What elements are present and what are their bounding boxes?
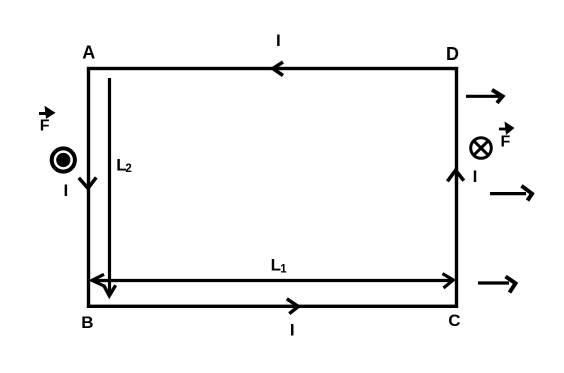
svg-text:D: D (446, 44, 459, 64)
current into page symbol (circle with cross) (471, 138, 492, 159)
arrowhead: down arrow at bottom of L2 (104, 285, 116, 296)
svg-text:C: C (448, 311, 460, 330)
field arrow right (middle) (490, 192, 526, 195)
force vector F arrow on left side (39, 112, 49, 115)
current arrow on top side (pointing left) (273, 62, 283, 76)
current arrow on left side (pointing down) (79, 177, 96, 188)
svg-text:F: F (40, 118, 50, 135)
svg-text:I: I (64, 181, 69, 200)
force vector F arrow on right side (499, 128, 508, 131)
svg-text:A: A (82, 43, 95, 63)
field arrow right (bottom) (478, 281, 509, 284)
wire: inner vertical measure line L2 (108, 78, 111, 293)
arrowhead: right arrow at right end of L1 (443, 274, 454, 288)
current arrow on right side (pointing up) (447, 170, 463, 181)
svg-text:I: I (276, 31, 281, 50)
svg-text:B: B (81, 313, 93, 332)
svg-text:I: I (290, 321, 295, 340)
current out of page symbol (circle with dot) (52, 148, 75, 171)
arrowhead: left arrow at left end of L1 (92, 274, 105, 286)
wire: rectangular current loop A-D-C-B (89, 69, 457, 307)
field arrow right (top) (466, 95, 499, 98)
wire: inner horizontal measure line L1 (94, 279, 451, 282)
current arrow on bottom side (pointing right) (287, 299, 299, 314)
svg-text:F: F (501, 134, 511, 151)
svg-text:I: I (473, 167, 478, 186)
